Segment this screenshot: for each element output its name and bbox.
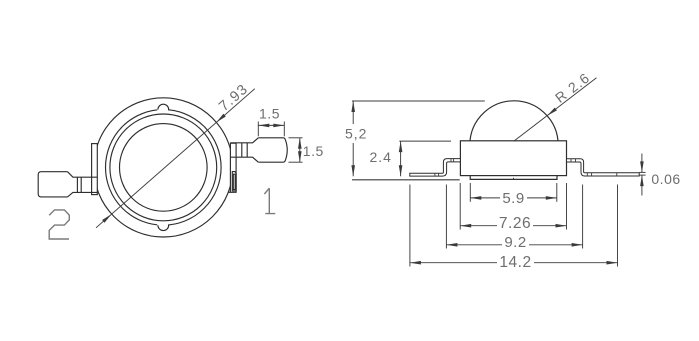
ring circle with index notches	[106, 110, 222, 226]
dimension 9.2	[446, 244, 582, 246]
svg-text:5,2: 5,2	[345, 126, 367, 142]
left lead ticks	[435, 159, 454, 177]
dimension 2.4	[399, 141, 451, 176]
svg-text:14.2: 14.2	[499, 254, 531, 271]
bottom extension lines	[410, 183, 618, 267]
bottom slab step	[470, 176, 557, 180]
radius leader R 2.6	[514, 78, 597, 142]
lead 1 bend ticks	[242, 143, 247, 157]
right lead ticks	[571, 159, 617, 176]
dimension 1.5 vertical (pad 1 height)	[289, 138, 303, 162]
lens circle	[120, 124, 208, 212]
dimension 14.2	[410, 262, 618, 264]
svg-text:0.06: 0.06	[651, 171, 680, 187]
dimension 7.26	[460, 225, 566, 227]
svg-text:2.4: 2.4	[370, 149, 392, 165]
inner ring circle	[110, 114, 217, 221]
left lead side profile	[410, 159, 461, 177]
pin number 1	[264, 188, 275, 213]
svg-text:1.5: 1.5	[303, 143, 324, 159]
solder pad 2	[38, 172, 67, 197]
svg-text:7.26: 7.26	[499, 215, 531, 232]
dimension 5.9	[470, 197, 557, 199]
diameter dimension 7.93	[96, 89, 255, 228]
lead 1 (right)	[230, 138, 258, 162]
dimension 1.5 horizontal (pad 1 width)	[258, 122, 284, 137]
svg-text:9.2: 9.2	[504, 234, 526, 251]
slab center tick	[513, 178, 515, 180]
lead 2 (left)	[68, 172, 98, 197]
lead 2 bend ticks	[77, 177, 81, 192]
solder pad 1	[258, 138, 287, 162]
left side tab	[92, 144, 98, 195]
package body rectangle	[460, 141, 566, 176]
right lead side profile	[567, 159, 640, 176]
dimension 5.2	[352, 101, 485, 176]
bottom notch bump	[157, 223, 168, 230]
svg-text:1.5: 1.5	[259, 105, 280, 121]
pin number 2	[49, 210, 69, 239]
lens dome	[470, 101, 558, 141]
dimension 0.06 (lead thickness)	[639, 154, 645, 196]
right side tab	[230, 143, 236, 192]
seating baseline	[352, 179, 460, 181]
svg-text:5.9: 5.9	[502, 190, 524, 207]
LED top view : outer body circle	[94, 98, 233, 237]
cathode slot mark on right tab	[232, 172, 236, 191]
top notch bump	[157, 104, 168, 111]
